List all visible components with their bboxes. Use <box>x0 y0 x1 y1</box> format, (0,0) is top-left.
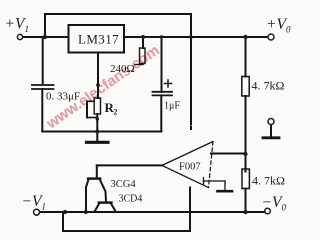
svg-text:0. 33μF: 0. 33μF <box>46 91 80 103</box>
svg-text:3CD4: 3CD4 <box>119 194 143 205</box>
svg-text:4. 7kΩ: 4. 7kΩ <box>252 79 285 93</box>
svg-text:240Ω: 240Ω <box>110 63 135 75</box>
svg-text:F007: F007 <box>179 162 201 173</box>
svg-text:2: 2 <box>114 108 118 117</box>
svg-text:4. 7kΩ: 4. 7kΩ <box>252 174 285 188</box>
svg-text:3CG4: 3CG4 <box>111 179 137 190</box>
svg-text:LM317: LM317 <box>78 32 119 47</box>
svg-text:1μF: 1μF <box>164 101 180 112</box>
